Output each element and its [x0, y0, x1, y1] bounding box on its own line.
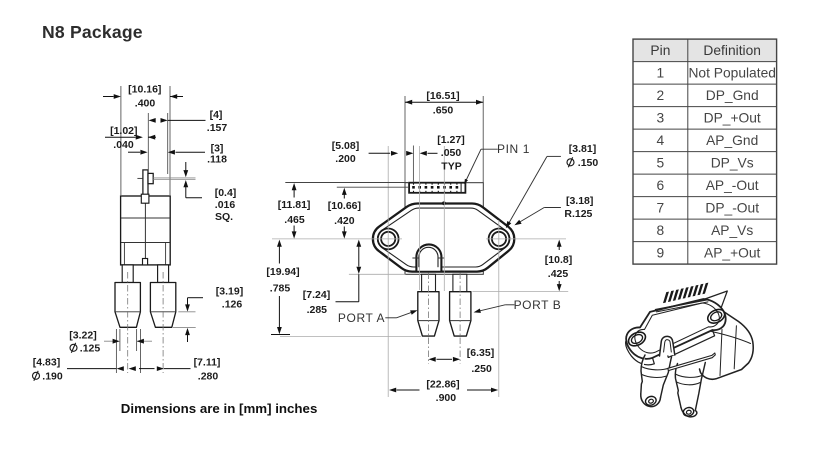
svg-text:.050: .050 [441, 147, 462, 159]
svg-text:.016: .016 [215, 199, 236, 211]
svg-text:9: 9 [657, 245, 665, 260]
svg-text:[5.08]: [5.08] [332, 140, 359, 152]
svg-text:DP_Vs: DP_Vs [711, 155, 754, 170]
svg-text:[3.22]: [3.22] [69, 329, 96, 341]
svg-text:Definition: Definition [703, 43, 761, 58]
svg-text:N8 Package: N8 Package [42, 22, 143, 42]
svg-text:8: 8 [657, 223, 665, 238]
svg-text:2: 2 [657, 88, 665, 103]
svg-text:[3.81]: [3.81] [569, 143, 596, 155]
svg-text:[6.35]: [6.35] [467, 347, 494, 359]
svg-text:[7.11]: [7.11] [194, 356, 221, 368]
svg-text:4: 4 [657, 133, 665, 148]
svg-text:.040: .040 [113, 139, 134, 151]
svg-text:AP_-Out: AP_-Out [706, 178, 759, 193]
svg-text:3: 3 [657, 110, 665, 125]
svg-text:SQ.: SQ. [215, 211, 233, 223]
svg-text:.150: .150 [578, 157, 599, 169]
svg-text:PIN 1: PIN 1 [497, 142, 530, 156]
svg-text:DP_+Out: DP_+Out [704, 110, 761, 125]
svg-text:AP_Gnd: AP_Gnd [706, 133, 758, 148]
svg-text:PORT B: PORT B [514, 298, 562, 312]
svg-text:[10.66]: [10.66] [328, 200, 361, 212]
svg-text:[19.94]: [19.94] [266, 266, 299, 278]
svg-text:.420: .420 [334, 215, 355, 227]
svg-text:.785: .785 [270, 283, 291, 295]
svg-text:[22.86]: [22.86] [426, 379, 459, 391]
svg-text:.190: .190 [42, 370, 63, 382]
svg-text:[11.81]: [11.81] [278, 199, 311, 211]
svg-text:.280: .280 [198, 370, 219, 382]
svg-text:.118: .118 [207, 153, 227, 165]
svg-text:[3.18]: [3.18] [566, 195, 593, 207]
svg-text:AP_+Out: AP_+Out [704, 245, 761, 260]
svg-text:PORT A: PORT A [338, 311, 385, 325]
svg-text:TYP: TYP [441, 160, 461, 172]
svg-text:R.125: R.125 [564, 208, 592, 220]
svg-text:.250: .250 [471, 363, 492, 375]
svg-text:[1.27]: [1.27] [437, 134, 464, 146]
svg-text:AP_Vs: AP_Vs [711, 223, 753, 238]
svg-text:.650: .650 [433, 105, 454, 117]
svg-text:.285: .285 [307, 304, 328, 316]
svg-text:.465: .465 [284, 214, 305, 226]
svg-text:[4.83]: [4.83] [33, 356, 60, 368]
svg-text:6: 6 [657, 178, 665, 193]
svg-text:DP_Gnd: DP_Gnd [706, 88, 759, 103]
svg-text:Dimensions are in [mm] inches: Dimensions are in [mm] inches [121, 401, 318, 416]
svg-text:1: 1 [657, 65, 665, 80]
svg-text:[10.16]: [10.16] [128, 83, 161, 95]
svg-text:[4]: [4] [210, 109, 223, 121]
svg-text:.126: .126 [222, 298, 243, 310]
svg-text:.900: .900 [436, 392, 457, 404]
svg-text:[1.02]: [1.02] [110, 125, 137, 137]
svg-text:[10.8]: [10.8] [545, 254, 572, 266]
svg-text:.200: .200 [335, 153, 356, 165]
svg-text:DP_-Out: DP_-Out [705, 200, 759, 215]
svg-text:[7.24]: [7.24] [303, 289, 330, 301]
svg-text:Not Populated: Not Populated [688, 65, 775, 80]
svg-text:[16.51]: [16.51] [426, 90, 459, 102]
svg-text:Pin: Pin [650, 43, 670, 58]
svg-text:.400: .400 [135, 97, 156, 109]
svg-text:[3.19]: [3.19] [216, 285, 243, 297]
svg-text:5: 5 [657, 155, 665, 170]
svg-text:[0.4]: [0.4] [215, 187, 237, 199]
svg-text:.157: .157 [207, 122, 228, 134]
svg-text:.425: .425 [548, 268, 569, 280]
svg-text:.125: .125 [80, 342, 101, 354]
svg-text:7: 7 [657, 200, 665, 215]
